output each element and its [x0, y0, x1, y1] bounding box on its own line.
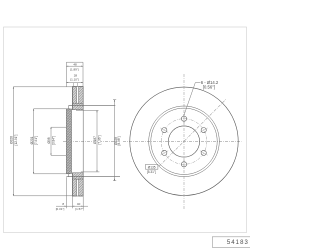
rotor section bar hatch top-left: [72, 87, 76, 104]
swept ID circle: [149, 106, 220, 177]
svg-text:Ø135: Ø135: [148, 165, 156, 169]
svg-text:[3.84"]: [3.84"]: [51, 136, 55, 145]
hat circle: [151, 108, 217, 174]
hat flange band: [66, 109, 71, 174]
bar left edge lower: [71, 173, 73, 196]
bolt hole upper-right: [201, 128, 206, 133]
bolt hole lower-right: [201, 150, 206, 155]
dim line 28: [66, 82, 83, 84]
rotor section bar hatch bottom-left: [72, 179, 76, 196]
svg-text:54183: 54183: [227, 240, 249, 246]
diagonal centerline: [159, 99, 226, 166]
bolt hole top: [181, 116, 186, 121]
D135 box: [146, 164, 158, 169]
label D328 backing: [10, 131, 13, 150]
OD ext bottom: [13, 195, 72, 197]
label D187: [93, 136, 97, 144]
label D228: [114, 137, 118, 145]
D98 dim line: [50, 127, 52, 155]
D187 ext top: [76, 109, 99, 111]
svg-text:[0.31"]: [0.31"]: [56, 207, 65, 211]
svg-text:[1.10"]: [1.10"]: [70, 77, 79, 81]
dim line 48: [66, 65, 83, 67]
centerline axis: [63, 140, 242, 142]
bottom dim line: [56, 205, 88, 207]
label D98: [47, 137, 51, 143]
svg-text:[1.57"]: [1.57"]: [75, 207, 84, 211]
D187 dim line: [96, 110, 98, 171]
OD dim line: [12, 87, 14, 196]
top dim cap line: [66, 61, 83, 63]
hat top step horiz: [69, 105, 73, 107]
hat top line: [69, 105, 116, 107]
svg-text:40: 40: [77, 202, 81, 206]
svg-text:[8.98"]: [8.98"]: [117, 136, 121, 145]
svg-text:[1.89"]: [1.89"]: [70, 68, 79, 72]
D201 ext bottom: [34, 173, 70, 175]
bolt hole lower-left: [162, 150, 167, 155]
svg-text:[7.91"]: [7.91"]: [34, 136, 38, 145]
top dim ext right: [82, 62, 84, 86]
bottom ext bar right: [82, 196, 84, 208]
inner ext 28 right: [76, 83, 78, 87]
label D98 backing: [48, 131, 51, 150]
label D187 backing: [94, 131, 97, 150]
OD ext top: [13, 86, 72, 88]
label D328: [10, 136, 14, 144]
rotor section bar hatch top-right: [79, 87, 84, 104]
rotor section solid hatch bottom junction: [72, 173, 83, 180]
D201 ext top: [34, 108, 70, 110]
top dim ext left: [65, 62, 67, 87]
bolt circle dashdot: [161, 119, 207, 165]
D98 ext bottom: [51, 154, 66, 156]
hat bottom step horiz: [69, 176, 73, 178]
D228 dim line: [114, 100, 116, 181]
label D201: [30, 136, 34, 144]
rotor section bar hatch bottom-right: [79, 179, 84, 196]
bottom ext hat face: [65, 177, 67, 208]
svg-text:[5.31"]: [5.31"]: [147, 170, 156, 174]
inner ext 28 left: [72, 83, 74, 87]
bar right edge: [82, 87, 84, 197]
bar top edge: [72, 86, 83, 88]
bar bottom edge: [72, 195, 83, 197]
svg-text:[0.56"]: [0.56"]: [203, 84, 215, 89]
svg-text:48: 48: [73, 62, 77, 66]
svg-text:[7.36"]: [7.36"]: [97, 135, 101, 144]
bolt hole bottom: [181, 162, 186, 167]
hat top step vert: [68, 106, 70, 109]
front view outer circle: [130, 87, 238, 195]
bolt hole radial ticks: [160, 114, 207, 169]
label D201 backing: [30, 131, 33, 150]
center bore circle: [168, 126, 199, 157]
hat bottom step vert: [68, 174, 70, 177]
vertical centerline: [183, 74, 185, 209]
D98 ext top: [51, 126, 66, 128]
border frame: [4, 27, 247, 233]
bolt hole upper-left: [162, 128, 167, 133]
rotor section solid hatch top junction: [72, 103, 83, 110]
bar left edge upper: [71, 87, 73, 110]
D187 ext bottom: [81, 171, 100, 173]
label D228 backing: [115, 133, 122, 151]
hat bottom line: [66, 176, 120, 178]
svg-text:[12.91"]: [12.91"]: [14, 134, 18, 145]
bottom ext bar left: [71, 196, 73, 208]
leader 6-D14.2: [195, 82, 200, 84]
D201 dim line: [33, 109, 35, 174]
title block: [212, 237, 251, 248]
